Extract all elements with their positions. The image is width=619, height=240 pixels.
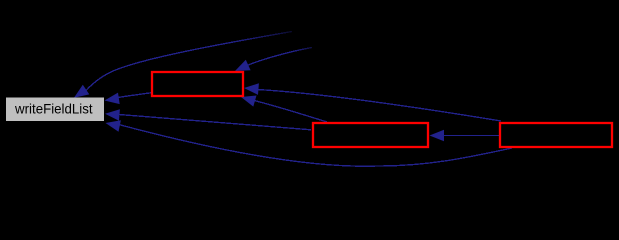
arrowhead B1 (E6 into box1 top right) bbox=[235, 60, 251, 71]
edge E6: caller line into box1 top-right corner bbox=[247, 48, 312, 66]
edge E1: caller curve into writeFieldList top bbox=[86, 32, 292, 91]
edge E3: box2 to writeFieldList bbox=[114, 114, 311, 130]
edge E5: box3 to box2 horizontal bbox=[441, 135, 499, 137]
arrowhead B4 (E5 into box2 right edge) bbox=[430, 130, 445, 142]
arrowhead B2 (E7 into box1 right edge) bbox=[244, 83, 259, 95]
node box3 (truncated caller, red) bbox=[500, 123, 612, 147]
arrowhead A2 (E2 into writeFieldList right top) bbox=[105, 93, 120, 105]
svg-text:writeFieldList: writeFieldList bbox=[14, 101, 93, 117]
edge E2: box1 to writeFieldList bbox=[113, 93, 151, 98]
edge E8: box2 to box1 bottom-right corner bbox=[253, 100, 327, 122]
edge E7: box3 to box1 right edge bbox=[254, 89, 501, 121]
edge E4: bottom sweeping curve from box3 to writeFieldList bbox=[115, 124, 512, 167]
arrowhead A3 (E3 into writeFieldList right) bbox=[105, 109, 120, 121]
arrowhead B3 (E8 into box1 bottom right) bbox=[241, 96, 257, 107]
arrowhead A1 (E1 into writeFieldList top) bbox=[74, 85, 89, 98]
arrowhead A4 (E4 into writeFieldList bottom right) bbox=[106, 120, 121, 131]
node box1 (truncated caller, red) bbox=[152, 72, 243, 96]
node writeFieldList (current function, gray) bbox=[6, 98, 104, 122]
node box2 (truncated caller, red) bbox=[313, 123, 428, 147]
